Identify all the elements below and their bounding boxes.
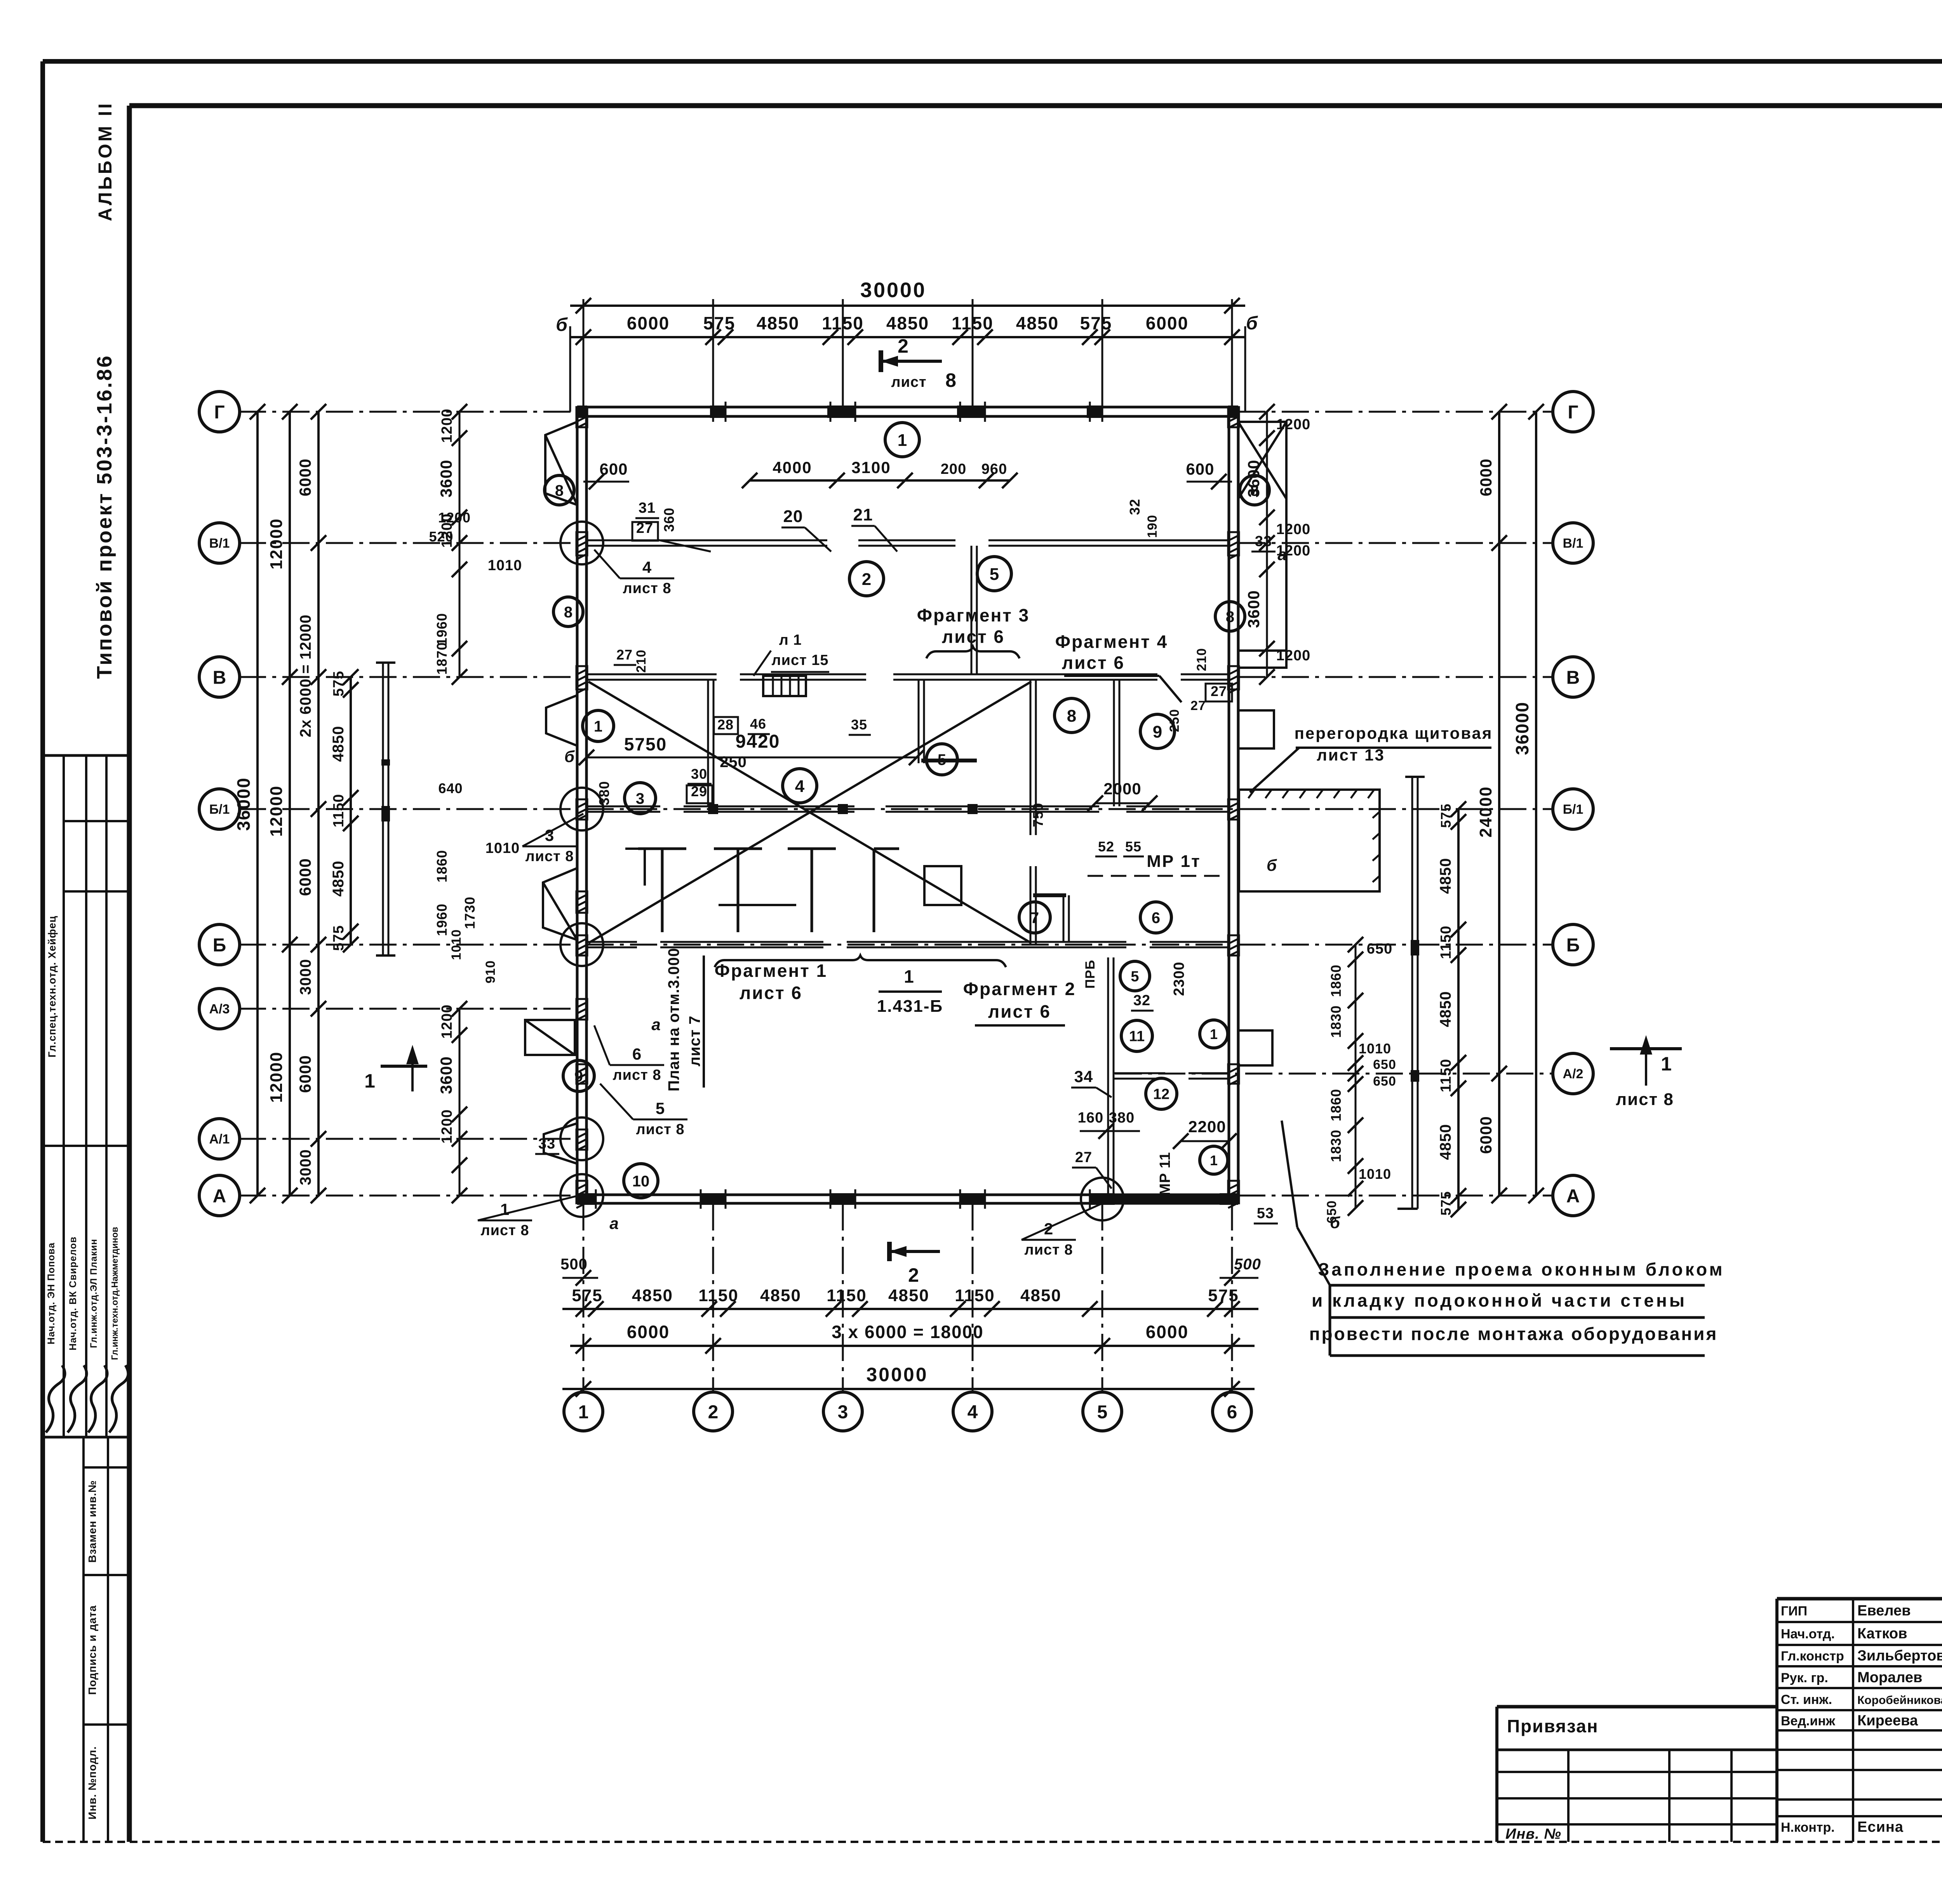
svg-text:210: 210 bbox=[1194, 648, 1209, 671]
svg-text:В/1: В/1 bbox=[1563, 536, 1584, 551]
svg-text:Б/1: Б/1 bbox=[1563, 802, 1584, 817]
svg-text:32: 32 bbox=[1127, 499, 1143, 515]
svg-text:190: 190 bbox=[1145, 515, 1160, 538]
svg-text:12000: 12000 bbox=[267, 785, 286, 837]
svg-text:31: 31 bbox=[639, 500, 656, 516]
svg-text:б: б bbox=[1330, 1213, 1341, 1232]
svg-text:2: 2 bbox=[708, 1402, 719, 1422]
svg-text:650: 650 bbox=[1373, 1074, 1396, 1089]
svg-text:12000: 12000 bbox=[267, 518, 286, 569]
svg-text:лист 7: лист 7 bbox=[686, 1015, 703, 1066]
svg-text:1: 1 bbox=[1210, 1026, 1218, 1042]
svg-text:Катков: Катков bbox=[1857, 1626, 1907, 1642]
svg-text:55: 55 bbox=[1125, 839, 1142, 855]
svg-text:Вед.инж: Вед.инж bbox=[1781, 1714, 1836, 1728]
svg-text:30000: 30000 bbox=[860, 278, 926, 302]
svg-text:8: 8 bbox=[1226, 608, 1234, 625]
svg-text:5: 5 bbox=[990, 565, 999, 584]
svg-text:4: 4 bbox=[642, 558, 652, 576]
svg-text:34: 34 bbox=[1074, 1067, 1093, 1086]
svg-text:8: 8 bbox=[1067, 707, 1076, 726]
svg-text:Гл.спец.техн.отд. Хейфец: Гл.спец.техн.отд. Хейфец bbox=[46, 915, 58, 1057]
svg-text:Есина: Есина bbox=[1857, 1819, 1904, 1835]
svg-text:960: 960 bbox=[981, 461, 1007, 477]
svg-text:360: 360 bbox=[661, 507, 677, 532]
svg-text:лист 6: лист 6 bbox=[942, 627, 1005, 647]
svg-text:5: 5 bbox=[656, 1099, 665, 1117]
svg-text:3000: 3000 bbox=[297, 1149, 314, 1185]
svg-text:32: 32 bbox=[1133, 992, 1150, 1009]
svg-text:575: 575 bbox=[1080, 313, 1112, 333]
svg-text:3100: 3100 bbox=[851, 458, 891, 477]
svg-text:Инв. №подл.: Инв. №подл. bbox=[86, 1746, 98, 1819]
svg-text:б: б bbox=[556, 315, 568, 335]
svg-text:6: 6 bbox=[632, 1045, 642, 1063]
svg-text:Моралев: Моралев bbox=[1857, 1669, 1922, 1686]
svg-text:1150: 1150 bbox=[698, 1286, 738, 1305]
svg-text:МР 1т: МР 1т bbox=[1147, 852, 1201, 871]
svg-text:33: 33 bbox=[538, 1136, 555, 1152]
svg-text:500: 500 bbox=[1234, 1256, 1261, 1273]
svg-text:Инв. №: Инв. № bbox=[1505, 1826, 1561, 1842]
svg-text:лист 15: лист 15 bbox=[771, 652, 828, 668]
svg-text:а: а bbox=[651, 1015, 661, 1034]
svg-text:Г: Г bbox=[214, 402, 224, 423]
svg-text:575: 575 bbox=[1438, 1191, 1454, 1215]
svg-text:250: 250 bbox=[720, 754, 747, 771]
svg-text:575: 575 bbox=[1208, 1286, 1239, 1305]
svg-text:3600: 3600 bbox=[437, 1056, 455, 1094]
svg-text:Фрагмент 4: Фрагмент 4 bbox=[1055, 632, 1168, 652]
svg-text:1.431-Б: 1.431-Б bbox=[877, 997, 943, 1016]
svg-text:575: 575 bbox=[572, 1286, 602, 1305]
svg-text:9: 9 bbox=[574, 1068, 583, 1085]
svg-text:Б: Б bbox=[1566, 935, 1580, 955]
svg-text:1010: 1010 bbox=[486, 840, 520, 856]
svg-text:б: б bbox=[1267, 856, 1277, 874]
floor plan: section marks and cross lines bbox=[588, 682, 1031, 943]
svg-text:лист: лист bbox=[891, 374, 926, 390]
svg-text:Гл.инж.отд.ЭЛ Плакин: Гл.инж.отд.ЭЛ Плакин bbox=[89, 1239, 99, 1348]
svg-text:4850: 4850 bbox=[888, 1286, 929, 1305]
svg-text:27: 27 bbox=[616, 647, 633, 663]
svg-text:1860: 1860 bbox=[1328, 1089, 1344, 1121]
svg-text:4850: 4850 bbox=[1016, 313, 1059, 333]
svg-text:6: 6 bbox=[1152, 909, 1160, 926]
svg-text:1860: 1860 bbox=[1328, 964, 1344, 997]
svg-text:6000: 6000 bbox=[1477, 458, 1495, 496]
svg-text:12000: 12000 bbox=[267, 1051, 286, 1103]
svg-text:27: 27 bbox=[1075, 1149, 1092, 1166]
svg-text:лист 8: лист 8 bbox=[636, 1121, 685, 1138]
svg-text:1960: 1960 bbox=[434, 613, 450, 646]
svg-text:1: 1 bbox=[904, 966, 914, 987]
svg-text:4: 4 bbox=[795, 777, 805, 796]
floor plan: room number circles bbox=[885, 423, 919, 457]
svg-text:б: б bbox=[564, 747, 575, 766]
svg-text:ПРБ: ПРБ bbox=[1083, 960, 1098, 989]
svg-text:План на отм.3.000: План на отм.3.000 bbox=[665, 948, 682, 1091]
svg-text:а: а bbox=[609, 1214, 619, 1232]
title block (stamp) bbox=[1777, 1597, 1942, 1601]
svg-text:9: 9 bbox=[1153, 722, 1162, 741]
svg-text:1010: 1010 bbox=[449, 929, 464, 960]
svg-text:4850: 4850 bbox=[757, 313, 799, 333]
svg-text:1: 1 bbox=[364, 1070, 375, 1092]
svg-text:4: 4 bbox=[968, 1402, 978, 1422]
svg-text:1010: 1010 bbox=[488, 557, 522, 574]
svg-text:2000: 2000 bbox=[1103, 780, 1141, 798]
svg-text:27: 27 bbox=[1190, 698, 1206, 713]
svg-text:Нач.отд.: Нач.отд. bbox=[1781, 1627, 1835, 1641]
svg-text:МР 11: МР 11 bbox=[1157, 1152, 1173, 1196]
svg-text:1010: 1010 bbox=[1359, 1166, 1391, 1182]
svg-text:650: 650 bbox=[1367, 941, 1392, 957]
floor plan: porches, canopies, rails bbox=[545, 422, 577, 505]
svg-text:1150: 1150 bbox=[1438, 1059, 1454, 1092]
svg-text:А: А bbox=[213, 1186, 226, 1206]
svg-text:Фрагмент 2: Фрагмент 2 bbox=[963, 979, 1076, 999]
svg-text:Н.контр.: Н.контр. bbox=[1781, 1820, 1835, 1835]
svg-text:200: 200 bbox=[941, 461, 966, 477]
svg-text:Б/1: Б/1 bbox=[209, 802, 230, 817]
svg-text:1200: 1200 bbox=[439, 409, 455, 443]
svg-text:1: 1 bbox=[1661, 1053, 1672, 1075]
svg-text:А/3: А/3 bbox=[209, 1002, 230, 1016]
svg-text:575: 575 bbox=[331, 925, 347, 951]
svg-text:1: 1 bbox=[594, 718, 602, 735]
svg-text:4850: 4850 bbox=[1020, 1286, 1061, 1305]
floor plan: walls and windows bbox=[577, 406, 1238, 409]
svg-text:4850: 4850 bbox=[886, 313, 929, 333]
svg-text:4850: 4850 bbox=[760, 1286, 801, 1305]
svg-text:1870: 1870 bbox=[434, 642, 450, 675]
svg-text:4850: 4850 bbox=[632, 1286, 673, 1305]
svg-text:3600: 3600 bbox=[437, 459, 455, 497]
svg-text:4850: 4850 bbox=[1437, 1124, 1454, 1160]
svg-text:600: 600 bbox=[599, 460, 628, 478]
floor plan: equipment symbols in paint shop bbox=[661, 849, 664, 932]
svg-text:1200: 1200 bbox=[438, 510, 471, 526]
svg-text:53: 53 bbox=[1257, 1205, 1274, 1222]
svg-text:Взамен инв.№: Взамен инв.№ bbox=[86, 1480, 98, 1563]
floor plan: dimension chains bbox=[570, 305, 1245, 307]
svg-text:Фрагмент 1: Фрагмент 1 bbox=[715, 961, 827, 981]
svg-text:6000: 6000 bbox=[1146, 1322, 1189, 1342]
svg-text:5: 5 bbox=[1097, 1402, 1108, 1422]
svg-text:250: 250 bbox=[1167, 709, 1182, 732]
svg-text:650: 650 bbox=[1373, 1057, 1396, 1072]
svg-text:Коробейникова: Коробейникова bbox=[1857, 1694, 1942, 1707]
svg-text:30000: 30000 bbox=[866, 1364, 928, 1385]
svg-text:Ст. инж.: Ст. инж. bbox=[1781, 1692, 1832, 1707]
svg-text:575: 575 bbox=[703, 313, 736, 333]
svg-text:4850: 4850 bbox=[1437, 858, 1454, 894]
svg-text:6000: 6000 bbox=[627, 1322, 670, 1342]
svg-text:4850: 4850 bbox=[330, 726, 347, 762]
svg-text:1830: 1830 bbox=[1328, 1005, 1344, 1038]
svg-text:Г: Г bbox=[1568, 402, 1578, 423]
svg-text:1150: 1150 bbox=[1438, 926, 1454, 959]
svg-text:4000: 4000 bbox=[773, 458, 812, 477]
sheet frame and borders bbox=[43, 59, 1942, 64]
svg-text:1150: 1150 bbox=[955, 1286, 995, 1305]
svg-text:28: 28 bbox=[717, 717, 734, 733]
svg-text:В/1: В/1 bbox=[209, 536, 230, 551]
svg-text:3000: 3000 bbox=[297, 959, 314, 995]
svg-text:лист 6: лист 6 bbox=[740, 983, 802, 1003]
svg-text:52: 52 bbox=[1098, 839, 1114, 855]
svg-text:1200: 1200 bbox=[1276, 521, 1311, 538]
svg-text:500: 500 bbox=[560, 1256, 588, 1273]
svg-text:11: 11 bbox=[1129, 1029, 1145, 1045]
svg-text:лист 8: лист 8 bbox=[526, 848, 574, 865]
svg-text:2300: 2300 bbox=[1171, 962, 1187, 996]
svg-text:1: 1 bbox=[1210, 1152, 1218, 1168]
svg-text:2x 6000 = 12000: 2x 6000 = 12000 bbox=[297, 614, 314, 737]
svg-text:3600: 3600 bbox=[1244, 590, 1263, 628]
svg-text:12: 12 bbox=[1153, 1086, 1169, 1103]
svg-text:Привязан: Привязан bbox=[1507, 1716, 1599, 1736]
svg-text:46: 46 bbox=[750, 716, 766, 732]
svg-text:640: 640 bbox=[438, 780, 463, 796]
svg-text:4850: 4850 bbox=[1437, 991, 1454, 1027]
svg-text:Евелев: Евелев bbox=[1857, 1603, 1911, 1619]
svg-text:6: 6 bbox=[1227, 1402, 1237, 1422]
svg-text:Б: Б bbox=[213, 935, 226, 955]
svg-text:575: 575 bbox=[1438, 803, 1454, 828]
svg-text:1: 1 bbox=[898, 431, 907, 450]
svg-text:3 x 6000 = 18000: 3 x 6000 = 18000 bbox=[832, 1322, 983, 1342]
svg-text:520: 520 bbox=[429, 529, 453, 545]
svg-text:3: 3 bbox=[838, 1402, 848, 1422]
svg-text:8: 8 bbox=[555, 482, 564, 499]
svg-text:36000: 36000 bbox=[1512, 701, 1532, 755]
svg-text:2: 2 bbox=[862, 570, 871, 589]
svg-text:27: 27 bbox=[1211, 683, 1227, 699]
svg-text:лист 8: лист 8 bbox=[623, 580, 672, 597]
svg-text:и кладку подоконной части стен: и кладку подоконной части стены bbox=[1312, 1290, 1687, 1311]
svg-text:5: 5 bbox=[1131, 969, 1139, 985]
svg-text:1150: 1150 bbox=[827, 1286, 867, 1305]
svg-text:Подпись и дата: Подпись и дата bbox=[86, 1605, 98, 1695]
svg-text:210: 210 bbox=[634, 649, 649, 673]
svg-text:8: 8 bbox=[1250, 482, 1259, 499]
svg-text:1150: 1150 bbox=[822, 313, 864, 333]
svg-text:160: 160 bbox=[1078, 1110, 1103, 1126]
svg-text:1150: 1150 bbox=[952, 313, 994, 333]
svg-text:36000: 36000 bbox=[233, 777, 254, 831]
svg-text:21: 21 bbox=[853, 505, 873, 524]
svg-text:380: 380 bbox=[596, 781, 612, 805]
svg-text:Типовой проект 503-3-16.86: Типовой проект 503-3-16.86 bbox=[93, 354, 116, 679]
svg-text:750: 750 bbox=[1030, 802, 1046, 827]
svg-text:1730: 1730 bbox=[462, 896, 478, 929]
svg-text:л 1: л 1 bbox=[779, 632, 802, 648]
svg-text:В: В bbox=[1566, 667, 1580, 688]
svg-text:3: 3 bbox=[545, 826, 554, 844]
svg-text:5750: 5750 bbox=[624, 734, 667, 754]
svg-text:1960: 1960 bbox=[434, 903, 450, 936]
svg-text:лист 8: лист 8 bbox=[613, 1067, 661, 1083]
svg-text:1010: 1010 bbox=[1359, 1041, 1391, 1056]
svg-text:Зильбертов: Зильбертов bbox=[1857, 1648, 1942, 1664]
svg-text:Заполнение проема оконным блок: Заполнение проема оконным блоком bbox=[1318, 1259, 1724, 1279]
svg-text:1860: 1860 bbox=[434, 850, 450, 882]
svg-text:4850: 4850 bbox=[330, 861, 347, 897]
svg-text:А/2: А/2 bbox=[1563, 1067, 1584, 1081]
svg-text:А: А bbox=[1566, 1186, 1580, 1206]
svg-text:Фрагмент 3: Фрагмент 3 bbox=[917, 605, 1030, 625]
svg-text:лист 6: лист 6 bbox=[1062, 653, 1125, 673]
svg-text:Нач.отд. ЭН Попова: Нач.отд. ЭН Попова bbox=[46, 1243, 57, 1345]
svg-text:575: 575 bbox=[331, 671, 347, 696]
svg-text:6000: 6000 bbox=[627, 313, 670, 333]
svg-text:6000: 6000 bbox=[296, 858, 314, 896]
svg-text:910: 910 bbox=[483, 960, 498, 983]
svg-text:Рук. гр.: Рук. гр. bbox=[1781, 1671, 1828, 1685]
svg-text:ГИП: ГИП bbox=[1781, 1604, 1807, 1619]
svg-text:1200: 1200 bbox=[439, 1109, 455, 1144]
svg-text:1830: 1830 bbox=[1328, 1130, 1344, 1162]
svg-text:АЛЬБОМ II: АЛЬБОМ II bbox=[95, 101, 116, 221]
svg-text:лист 8: лист 8 bbox=[481, 1222, 529, 1239]
svg-text:2200: 2200 bbox=[1188, 1117, 1226, 1136]
svg-text:7: 7 bbox=[1030, 909, 1039, 926]
svg-text:3: 3 bbox=[636, 790, 644, 807]
svg-text:8: 8 bbox=[945, 369, 956, 391]
svg-text:6000: 6000 bbox=[296, 1055, 314, 1093]
svg-text:провести после монтажа оборудо: провести после монтажа оборудования bbox=[1309, 1324, 1718, 1344]
svg-text:лист 8: лист 8 bbox=[1025, 1242, 1073, 1258]
svg-text:В: В bbox=[213, 667, 226, 688]
svg-text:8: 8 bbox=[564, 604, 573, 621]
svg-text:1: 1 bbox=[500, 1200, 510, 1218]
svg-text:б: б bbox=[1246, 313, 1258, 334]
svg-text:600: 600 bbox=[1186, 460, 1214, 478]
svg-text:6000: 6000 bbox=[296, 458, 314, 496]
svg-text:лист 8: лист 8 bbox=[1616, 1090, 1674, 1109]
svg-text:6000: 6000 bbox=[1146, 313, 1189, 333]
svg-text:1150: 1150 bbox=[331, 794, 347, 827]
svg-text:Гл.инж.техн.отд.Нажметдинов: Гл.инж.техн.отд.Нажметдинов bbox=[110, 1227, 120, 1360]
svg-text:6000: 6000 bbox=[1477, 1116, 1495, 1154]
svg-text:33: 33 bbox=[1255, 533, 1272, 550]
svg-text:лист 6: лист 6 bbox=[988, 1001, 1051, 1022]
svg-text:1200: 1200 bbox=[439, 1004, 455, 1039]
svg-text:Гл.констр: Гл.констр bbox=[1781, 1649, 1844, 1664]
svg-text:20: 20 bbox=[783, 507, 803, 526]
svg-text:10: 10 bbox=[632, 1173, 650, 1190]
svg-text:5: 5 bbox=[938, 751, 946, 768]
svg-text:А/1: А/1 bbox=[209, 1132, 230, 1147]
svg-text:2: 2 bbox=[908, 1264, 919, 1286]
svg-text:а: а bbox=[1277, 545, 1287, 564]
svg-text:24000: 24000 bbox=[1476, 786, 1495, 837]
svg-text:перегородка щитовая: перегородка щитовая bbox=[1295, 724, 1493, 742]
svg-text:1: 1 bbox=[578, 1402, 589, 1422]
svg-text:Киреева: Киреева bbox=[1857, 1713, 1918, 1729]
svg-text:2: 2 bbox=[898, 335, 908, 357]
svg-text:30: 30 bbox=[691, 766, 707, 782]
floor plan: axis grid and axis circles bbox=[239, 411, 577, 413]
svg-text:Нач.отд. ВК Свирелов: Нач.отд. ВК Свирелов bbox=[68, 1236, 78, 1351]
svg-text:35: 35 bbox=[851, 717, 867, 733]
